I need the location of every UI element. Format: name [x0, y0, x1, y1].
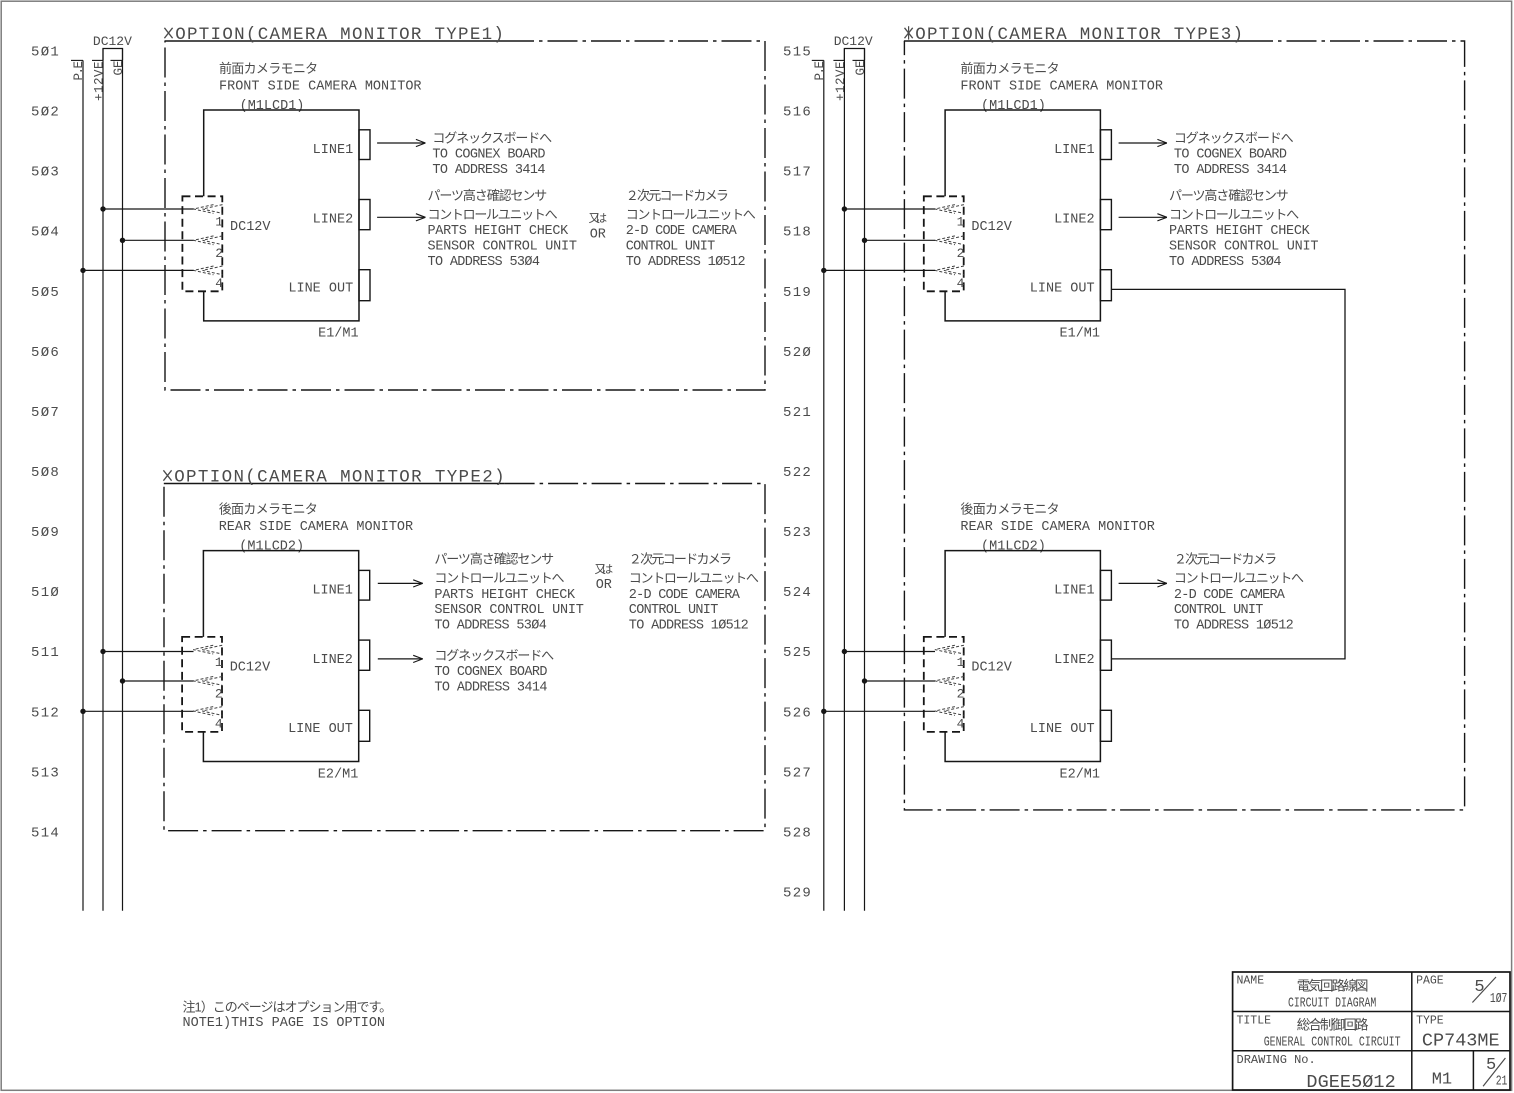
svg-text:REAR SIDE CAMERA MONITOR: REAR SIDE CAMERA MONITOR — [960, 520, 1154, 535]
svg-text:TO COGNEX BOARD: TO COGNEX BOARD — [434, 665, 547, 680]
svg-text:LINE2: LINE2 — [1054, 213, 1095, 228]
svg-text:TO ADDRESS 53Ø4: TO ADDRESS 53Ø4 — [434, 619, 546, 634]
svg-text:CONTROL UNIT: CONTROL UNIT — [629, 603, 718, 618]
svg-text:TO ADDRESS 53Ø4: TO ADDRESS 53Ø4 — [428, 255, 540, 270]
arrow LINE1 TYPE3 top to cognex — [1119, 142, 1167, 144]
camera monitor block M1LCD2 (TYPE3) — [945, 501, 1155, 761]
pin 4 of M1LCD2 TYPE2 — [193, 707, 223, 732]
pin 2 of M1LCD1 TYPE1 — [194, 236, 224, 261]
pin 4 of M1LCD2 TYPE3 — [935, 707, 965, 732]
svg-text:527: 527 — [783, 765, 812, 781]
wire +12VE to pin1 TYPE3 bottom — [842, 649, 847, 654]
svg-text:GE: GE — [112, 61, 126, 76]
node row labels 515-529 — [783, 45, 812, 902]
svg-text:(M1LCD1): (M1LCD1) — [981, 99, 1046, 114]
port LINE2 of M1LCD1 TYPE3 — [1054, 200, 1111, 230]
connector DC12V plug (TYPE3) — [924, 637, 1013, 732]
svg-text:52Ø: 52Ø — [783, 345, 812, 361]
svg-text:(M1LCD2): (M1LCD2) — [239, 540, 304, 555]
svg-text:511: 511 — [31, 645, 60, 661]
port LINE1 of M1LCD2 TYPE3 — [1054, 570, 1111, 600]
svg-text:DGEE5Ø12: DGEE5Ø12 — [1306, 1072, 1395, 1093]
svg-text:(M1LCD2): (M1LCD2) — [981, 540, 1046, 555]
svg-text:CP743ME: CP743ME — [1422, 1031, 1500, 1052]
svg-text:TO ADDRESS 3414: TO ADDRESS 3414 — [434, 680, 547, 695]
wire +12VE to pin1 TYPE2 — [100, 649, 105, 654]
arrow LINE2 TYPE1 to parts height check — [377, 216, 425, 218]
svg-text:注1）このページはオプション用です。: 注1）このページはオプション用です。 — [183, 1000, 393, 1015]
svg-text:LINE OUT: LINE OUT — [288, 722, 353, 737]
svg-text:525: 525 — [783, 645, 812, 661]
svg-text:2: 2 — [957, 246, 965, 261]
port LINE OUT of M1LCD2 TYPE2 — [288, 710, 370, 741]
svg-text:DC12V: DC12V — [971, 661, 1012, 676]
svg-text:4: 4 — [215, 717, 223, 732]
port LINE2 of M1LCD2 TYPE2 — [312, 640, 369, 670]
svg-text:1Ø7: 1Ø7 — [1490, 992, 1508, 1007]
svg-text:4: 4 — [215, 276, 223, 291]
svg-text:5Ø3: 5Ø3 — [31, 165, 60, 181]
svg-text:513: 513 — [31, 765, 60, 781]
arrow LINE1 TYPE3 bottom to 2-d code camera — [1119, 582, 1167, 584]
svg-text:5Ø2: 5Ø2 — [31, 105, 60, 121]
option boundary box TYPE1 — [165, 41, 765, 390]
svg-text:パーツ高さ確認センサ: パーツ高さ確認センサ — [1169, 188, 1289, 203]
wire LINE OUT E1/M1 to LINE2 E2/M1 (TYPE3) — [1111, 289, 1345, 659]
title block sheet 5/21 — [1483, 1056, 1507, 1090]
pin 2 of M1LCD2 TYPE3 — [935, 677, 965, 702]
wire +12VE to pin1 TYPE3 top — [842, 206, 847, 211]
svg-text:+12VE: +12VE — [834, 62, 848, 102]
svg-text:TO ADDRESS 53Ø4: TO ADDRESS 53Ø4 — [1169, 255, 1281, 270]
camera monitor block M1LCD1 (TYPE1) — [204, 61, 422, 321]
svg-text:GENERAL CONTROL CIRCUIT: GENERAL CONTROL CIRCUIT — [1264, 1035, 1401, 1051]
svg-text:SENSOR CONTROL UNIT: SENSOR CONTROL UNIT — [1169, 239, 1318, 254]
svg-text:SENSOR CONTROL UNIT: SENSOR CONTROL UNIT — [428, 239, 577, 254]
svg-text:PARTS HEIGHT CHECK: PARTS HEIGHT CHECK — [1169, 224, 1311, 239]
svg-text:CONTROL UNIT: CONTROL UNIT — [626, 239, 715, 254]
svg-text:TO ADDRESS 3414: TO ADDRESS 3414 — [1174, 163, 1287, 178]
svg-text:CIRCUIT DIAGRAM: CIRCUIT DIAGRAM — [1288, 996, 1376, 1012]
svg-text:1: 1 — [215, 215, 223, 230]
svg-text:コントロールユニットへ: コントロールユニットへ — [626, 207, 756, 222]
label: to cognex board TYPE3 top — [1174, 131, 1294, 178]
node row labels 501-514 — [31, 45, 60, 842]
svg-text:TO COGNEX BOARD: TO COGNEX BOARD — [1174, 148, 1287, 163]
svg-text:522: 522 — [783, 465, 812, 481]
port LINE1 of M1LCD1 TYPE1 — [313, 130, 370, 160]
wire GE to pin2 TYPE2 — [120, 678, 125, 683]
svg-text:E1/M1: E1/M1 — [318, 327, 359, 342]
label: to cognex board TYPE2 — [434, 648, 554, 695]
svg-text:P.E: P.E — [813, 61, 827, 81]
wire GE to pin2 TYPE1 — [120, 238, 125, 243]
svg-text:529: 529 — [783, 885, 812, 901]
svg-text:5Ø5: 5Ø5 — [31, 285, 60, 301]
svg-text:コグネックスボードへ: コグネックスボードへ — [432, 131, 552, 146]
title block NAME field — [1237, 975, 1377, 1012]
svg-text:総合制御回路: 総合制御回路 — [1297, 1018, 1369, 1033]
power bus P.E / +12VE / GE with DC12V source (right) — [812, 34, 873, 911]
svg-text:前面カメラモニタ: 前面カメラモニタ — [219, 61, 318, 76]
svg-text:REAR SIDE CAMERA MONITOR: REAR SIDE CAMERA MONITOR — [219, 520, 413, 535]
svg-text:517: 517 — [783, 165, 812, 181]
pin 2 of M1LCD1 TYPE3 — [935, 236, 965, 261]
svg-text:2: 2 — [215, 686, 223, 701]
port LINE1 of M1LCD1 TYPE3 — [1054, 130, 1111, 160]
svg-text:5Ø4: 5Ø4 — [31, 225, 60, 241]
wire GE to pin2 TYPE3 top — [862, 238, 867, 243]
svg-text:LINE2: LINE2 — [312, 653, 353, 668]
svg-text:コントロールユニットへ: コントロールユニットへ — [434, 571, 564, 586]
svg-text:FRONT SIDE CAMERA MONITOR: FRONT SIDE CAMERA MONITOR — [219, 79, 422, 94]
svg-text:518: 518 — [783, 225, 812, 241]
svg-text:LINE1: LINE1 — [1054, 584, 1095, 599]
svg-text:519: 519 — [783, 285, 812, 301]
svg-text:又は: 又は — [589, 212, 608, 225]
OR alternative label TYPE2 — [595, 563, 614, 593]
svg-text:(M1LCD1): (M1LCD1) — [240, 99, 305, 114]
arrow LINE1 TYPE2 to parts height check — [378, 582, 423, 584]
title block frame — [1233, 972, 1510, 1090]
svg-text:LINE2: LINE2 — [313, 213, 354, 228]
port LINE2 of M1LCD1 TYPE1 — [313, 200, 370, 230]
svg-text:TITLE: TITLE — [1237, 1015, 1272, 1028]
svg-text:FRONT SIDE CAMERA MONITOR: FRONT SIDE CAMERA MONITOR — [960, 79, 1163, 94]
svg-text:後面カメラモニタ: 後面カメラモニタ — [960, 501, 1059, 516]
svg-text:2-D CODE CAMERA: 2-D CODE CAMERA — [626, 224, 738, 239]
svg-text:1: 1 — [215, 655, 223, 670]
svg-text:NOTE1)THIS PAGE IS OPTION: NOTE1)THIS PAGE IS OPTION — [183, 1016, 386, 1031]
pin 1 of M1LCD1 TYPE1 — [194, 205, 224, 230]
svg-text:TO ADDRESS 1Ø512: TO ADDRESS 1Ø512 — [626, 255, 746, 270]
svg-text:LINE OUT: LINE OUT — [1030, 722, 1095, 737]
label: parts height check sensor control unit TYPE3 top — [1169, 188, 1318, 270]
svg-text:1: 1 — [957, 655, 965, 670]
svg-text:OR: OR — [596, 578, 612, 593]
connector DC12V plug (TYPE3) — [924, 196, 1013, 291]
svg-text:4: 4 — [957, 276, 965, 291]
svg-text:GE: GE — [854, 61, 868, 76]
svg-text:523: 523 — [783, 525, 812, 541]
svg-text:LINE1: LINE1 — [1054, 143, 1095, 158]
port LINE OUT of M1LCD2 TYPE3 — [1030, 710, 1112, 741]
option boundary box TYPE2 — [164, 484, 765, 831]
svg-text:OPTION(CAMERA MONITOR TYPE1): OPTION(CAMERA MONITOR TYPE1) — [175, 25, 504, 45]
svg-text:2-D CODE CAMERA: 2-D CODE CAMERA — [629, 588, 741, 603]
power bus P.E / +12VE / GE with DC12V source (left) — [71, 34, 132, 911]
svg-text:２次元コードカメラ: ２次元コードカメラ — [1174, 552, 1277, 567]
port LINE2 of M1LCD2 TYPE3 — [1054, 640, 1111, 670]
svg-text:DC12V: DC12V — [971, 220, 1012, 235]
svg-text:LINE1: LINE1 — [312, 584, 353, 599]
svg-text:5Ø7: 5Ø7 — [31, 405, 60, 421]
svg-text:M1: M1 — [1432, 1071, 1452, 1090]
svg-text:TO ADDRESS 3414: TO ADDRESS 3414 — [432, 163, 545, 178]
wire P.E to pin4 TYPE3 top — [821, 268, 826, 273]
svg-text:又は: 又は — [595, 563, 614, 576]
label: 2-d code camera control unit TYPE2 — [629, 552, 759, 634]
svg-text:コントロールユニットへ: コントロールユニットへ — [629, 571, 759, 586]
svg-text:DC12V: DC12V — [93, 34, 132, 49]
svg-text:512: 512 — [31, 705, 60, 721]
camera monitor block M1LCD1 (TYPE3) — [945, 61, 1163, 321]
title block DRAWING No. field DGEE5012 — [1237, 1053, 1396, 1093]
svg-text:DRAWING No.: DRAWING No. — [1237, 1053, 1316, 1067]
svg-text:E2/M1: E2/M1 — [1060, 767, 1101, 782]
OR alternative label TYPE1 — [589, 212, 608, 243]
pin 1 of M1LCD2 TYPE3 — [935, 645, 965, 670]
svg-text:TYPE: TYPE — [1416, 1015, 1444, 1028]
svg-text:LINE OUT: LINE OUT — [288, 282, 353, 297]
svg-text:515: 515 — [783, 45, 812, 61]
svg-text:後面カメラモニタ: 後面カメラモニタ — [219, 501, 318, 516]
arrow LINE2 TYPE3 top to parts height check — [1119, 216, 1167, 218]
option boundary box TYPE3 — [904, 41, 1464, 810]
asterisk marker TYPE3 title — [905, 28, 913, 38]
svg-text:DC12V: DC12V — [834, 34, 873, 49]
svg-text:LINE1: LINE1 — [313, 143, 354, 158]
label: parts height check sensor control unit TYPE1 — [428, 188, 577, 270]
svg-text:コントロールユニットへ: コントロールユニットへ — [1169, 207, 1299, 222]
svg-text:パーツ高さ確認センサ: パーツ高さ確認センサ — [434, 552, 554, 567]
svg-text:514: 514 — [31, 825, 60, 841]
svg-text:P.E: P.E — [72, 61, 86, 81]
svg-text:コグネックスボードへ: コグネックスボードへ — [434, 648, 554, 663]
svg-text:電気回路線図: 電気回路線図 — [1297, 979, 1369, 994]
svg-text:LINE OUT: LINE OUT — [1030, 282, 1095, 297]
svg-text:OPTION(CAMERA MONITOR TYPE3): OPTION(CAMERA MONITOR TYPE3) — [915, 25, 1243, 45]
svg-text:コントロールユニットへ: コントロールユニットへ — [428, 207, 558, 222]
svg-text:2: 2 — [215, 246, 223, 261]
wire P.E to pin4 TYPE2 — [80, 709, 85, 714]
svg-text:2-D CODE CAMERA: 2-D CODE CAMERA — [1174, 588, 1286, 603]
pin 4 of M1LCD1 TYPE1 — [194, 266, 224, 291]
svg-text:OR: OR — [590, 228, 606, 243]
svg-text:LINE2: LINE2 — [1054, 653, 1095, 668]
pin 4 of M1LCD1 TYPE3 — [935, 266, 965, 291]
svg-text:DC12V: DC12V — [230, 220, 271, 235]
camera monitor block M1LCD2 (TYPE2) — [203, 501, 413, 761]
label: 2-d code camera control unit TYPE3 bottom — [1174, 552, 1304, 634]
svg-text:PARTS HEIGHT CHECK: PARTS HEIGHT CHECK — [434, 588, 576, 603]
port LINE OUT of M1LCD1 TYPE3 — [1030, 270, 1112, 301]
wire +12VE to pin1 TYPE1 — [100, 206, 105, 211]
svg-text:51Ø: 51Ø — [31, 585, 60, 601]
wire GE to pin2 TYPE3 bottom — [862, 678, 867, 683]
connector DC12V plug (TYPE1) — [182, 196, 271, 291]
pin 2 of M1LCD2 TYPE2 — [193, 677, 223, 702]
svg-text:E2/M1: E2/M1 — [318, 767, 359, 782]
svg-text:前面カメラモニタ: 前面カメラモニタ — [960, 61, 1059, 76]
pin 1 of M1LCD1 TYPE3 — [935, 205, 965, 230]
svg-text:E1/M1: E1/M1 — [1060, 327, 1101, 342]
svg-text:524: 524 — [783, 585, 812, 601]
svg-text:5Ø1: 5Ø1 — [31, 45, 60, 61]
svg-text:コグネックスボードへ: コグネックスボードへ — [1174, 131, 1294, 146]
connector DC12V plug (TYPE2) — [182, 637, 271, 732]
port LINE OUT of M1LCD1 TYPE1 — [288, 270, 370, 301]
arrow LINE1 TYPE1 to cognex — [377, 142, 425, 144]
title block PAGE field 5/107 — [1416, 975, 1507, 1008]
svg-text:TO ADDRESS 1Ø512: TO ADDRESS 1Ø512 — [629, 619, 749, 634]
svg-text:21: 21 — [1496, 1075, 1508, 1090]
wire P.E to pin4 TYPE1 — [80, 268, 85, 273]
label: parts height check sensor control unit TYPE2 — [434, 552, 583, 634]
wire P.E to pin4 TYPE3 bottom — [821, 709, 826, 714]
svg-text:+12VE: +12VE — [93, 62, 107, 102]
svg-text:コントロールユニットへ: コントロールユニットへ — [1174, 571, 1304, 586]
svg-text:526: 526 — [783, 705, 812, 721]
svg-text:5Ø9: 5Ø9 — [31, 525, 60, 541]
svg-text:516: 516 — [783, 105, 812, 121]
svg-text:CONTROL UNIT: CONTROL UNIT — [1174, 603, 1263, 618]
svg-text:5Ø6: 5Ø6 — [31, 345, 60, 361]
svg-text:OPTION(CAMERA MONITOR TYPE2): OPTION(CAMERA MONITOR TYPE2) — [174, 468, 504, 488]
svg-text:PAGE: PAGE — [1416, 975, 1444, 988]
svg-text:２次元コードカメラ: ２次元コードカメラ — [629, 552, 732, 567]
svg-text:2: 2 — [957, 686, 965, 701]
svg-text:SENSOR CONTROL UNIT: SENSOR CONTROL UNIT — [434, 603, 583, 618]
label: 2-d code camera control unit TYPE1 — [626, 188, 756, 270]
title block TYPE field CP743ME — [1416, 1015, 1500, 1052]
svg-text:TO ADDRESS 1Ø512: TO ADDRESS 1Ø512 — [1174, 619, 1294, 634]
svg-text:TO COGNEX BOARD: TO COGNEX BOARD — [432, 148, 545, 163]
svg-text:２次元コードカメラ: ２次元コードカメラ — [626, 188, 729, 203]
svg-text:PARTS HEIGHT CHECK: PARTS HEIGHT CHECK — [428, 224, 570, 239]
svg-text:NAME: NAME — [1237, 975, 1265, 988]
label: to cognex board TYPE1 — [432, 131, 552, 178]
svg-text:528: 528 — [783, 825, 812, 841]
svg-text:パーツ高さ確認センサ: パーツ高さ確認センサ — [428, 188, 548, 203]
port LINE1 of M1LCD2 TYPE2 — [312, 570, 369, 600]
svg-text:1: 1 — [957, 215, 965, 230]
svg-text:5Ø8: 5Ø8 — [31, 465, 60, 481]
pin 1 of M1LCD2 TYPE2 — [193, 645, 223, 670]
title block TITLE field — [1237, 1015, 1401, 1051]
arrow LINE2 TYPE2 to cognex — [378, 658, 423, 660]
svg-text:4: 4 — [957, 717, 965, 732]
svg-text:521: 521 — [783, 405, 812, 421]
svg-text:DC12V: DC12V — [230, 661, 271, 676]
